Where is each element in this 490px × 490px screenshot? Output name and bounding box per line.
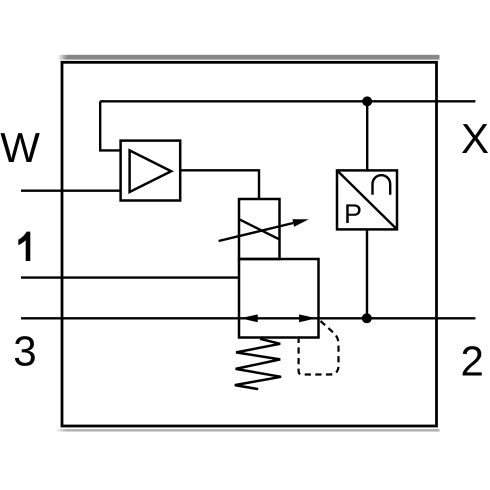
wire W input (21, 189, 121, 191)
pressure sensor spring arc (373, 175, 391, 195)
amplifier U1 triangle (130, 150, 172, 192)
flow arrowhead right (299, 314, 317, 322)
enclosure box (62, 62, 437, 426)
variable throttle adjustment arrow (219, 223, 294, 241)
variable throttle box (239, 199, 280, 259)
svg-text:3: 3 (13, 328, 36, 375)
return spring (235, 339, 281, 389)
pressure sensor U2 box (337, 170, 397, 229)
pressure regulator valve body (239, 259, 319, 338)
wire feedback to amplifier (100, 101, 120, 150)
pilot line dashed (299, 321, 339, 375)
wire port 1 (21, 276, 239, 278)
svg-text:2: 2 (461, 338, 484, 385)
amplifier U1 box (121, 141, 181, 201)
wire amplifier output to throttle (180, 170, 259, 199)
pressure sensor diagonal (337, 170, 397, 229)
junction dot node X (362, 96, 372, 106)
svg-text:P: P (344, 199, 362, 229)
wire X pilot line (node X) (100, 100, 475, 102)
port label 1 (18, 232, 30, 261)
enclosure bottom shadow bar (55, 429, 440, 432)
junction dot node 2 (362, 313, 372, 323)
wire X node to pressure sensor (366, 101, 368, 170)
wire pressure sensor to node 2 (366, 229, 368, 318)
flow line ports 3 to 2 (21, 317, 475, 319)
svg-text:W: W (0, 124, 40, 171)
svg-text:X: X (461, 115, 489, 162)
flow arrowhead left (240, 314, 258, 322)
enclosure top shadow bar (58, 55, 440, 60)
variable throttle cross line (240, 220, 279, 240)
